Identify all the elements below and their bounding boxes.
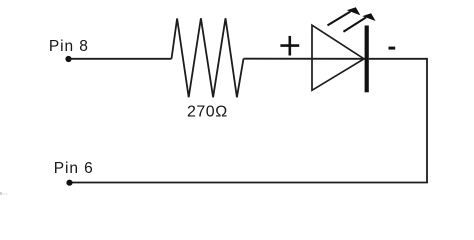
node Pin 8	[65, 56, 71, 62]
LED D1 triangle (anode)	[312, 25, 364, 90]
LED light arrow 1	[328, 7, 361, 25]
stray mark bottom-left	[0, 192, 2, 195]
wire right vertical	[426, 58, 428, 183]
svg-text:270Ω: 270Ω	[187, 104, 228, 121]
wire from Pin 8 to resistor	[69, 58, 172, 60]
polarity label -	[389, 47, 396, 50]
LED D1 cathode bar	[365, 26, 369, 93]
resistor R1 270 ohm	[172, 18, 244, 97]
svg-text:Pin 8: Pin 8	[49, 38, 89, 55]
wire from resistor to LED cathode bar (passes through triangle)	[244, 58, 365, 60]
svg-text:Pin 6: Pin 6	[54, 160, 94, 177]
node Pin 6	[66, 180, 72, 186]
polarity label +	[280, 36, 299, 56]
wire from cathode to right corner	[369, 58, 427, 60]
LED light arrow 2	[343, 13, 375, 32]
wire bottom from corner to Pin 6	[70, 182, 428, 184]
